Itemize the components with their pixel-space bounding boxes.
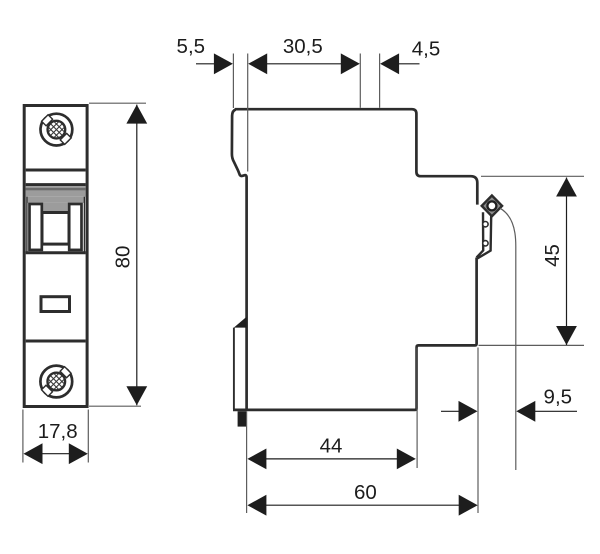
dim 60 line: [265, 504, 460, 506]
dim 30,5 right extension line: [359, 54, 361, 108]
toggle assembly bottom line: [26, 251, 86, 254]
toggle frame left line: [26, 197, 28, 254]
dim 80 top extension line: [89, 102, 146, 104]
gray band center step: [41, 203, 70, 212]
dim 60 right extension line: [477, 348, 479, 514]
DIN clip strip hole 1: [483, 222, 488, 227]
dim 17,8 line: [42, 453, 71, 455]
dim 17,8 left arrow: [24, 443, 43, 464]
screw terminal bottom: [40, 366, 72, 398]
dim 17,8 right arrow: [69, 443, 88, 464]
svg-text:45: 45: [541, 244, 564, 267]
DIN clip strip hole 2: [483, 241, 488, 246]
lower front tab wedge: [234, 317, 247, 328]
svg-text:5,5: 5,5: [177, 35, 206, 58]
front view outer body: [24, 106, 87, 407]
dim 30,5 right arrow: [341, 53, 360, 74]
dim 80 line: [136, 105, 138, 406]
toggle frame right line: [83, 197, 85, 254]
dim 5,5 tail line: [196, 63, 215, 65]
DIN clip strip left edge: [477, 212, 484, 257]
divider line below top screw section: [26, 169, 86, 172]
screw terminal top: [41, 114, 73, 146]
dim 9,5 right tail line: [534, 410, 577, 412]
dim front face extension line: [247, 54, 249, 172]
DIN clip strip right edge: [478, 216, 492, 259]
dim 5,5 extension line: [232, 54, 234, 109]
dim 60 right arrow: [459, 495, 478, 516]
divider line above gray band: [26, 183, 86, 186]
dark gray line on band: [26, 188, 86, 190]
gray band full width: [26, 186, 86, 197]
svg-text:80: 80: [112, 246, 135, 269]
lower front tab line: [233, 328, 235, 409]
dim 9,5 left arrow: [459, 401, 478, 422]
dim 44 right arrow: [397, 449, 416, 470]
right rail: [69, 204, 81, 250]
svg-text:44: 44: [320, 435, 343, 458]
divider line above bottom screw section: [26, 340, 86, 343]
dim 9,5 left tail line: [441, 410, 461, 412]
dim 30,5 left arrow: [248, 53, 267, 74]
bottom clip pin: [238, 411, 247, 426]
dim 17,8 right extension line: [87, 410, 89, 463]
dim 44 right extension line: [416, 348, 418, 469]
dim 80 top arrow: [126, 105, 147, 124]
dim 80 bottom arrow: [126, 386, 147, 405]
dim 30,5 line: [266, 63, 342, 65]
dim 44 line: [265, 458, 398, 460]
dim 45 top arrow: [556, 178, 577, 197]
dim 45 line: [566, 178, 568, 346]
label window: [41, 297, 70, 312]
dim 4,5 right extension line: [379, 54, 381, 108]
DIN clip screw circle: [487, 201, 496, 210]
dim 17,8 left extension line: [22, 410, 24, 463]
dim 45 bottom arrow: [556, 326, 577, 345]
dim 60 left arrow: [247, 495, 266, 516]
svg-text:30,5: 30,5: [283, 35, 323, 58]
dim 45 top extension line: [481, 175, 584, 177]
dim 44 left arrow: [247, 449, 266, 470]
dim 44 front extension line: [246, 412, 248, 514]
dim 45 bottom extension line: [479, 344, 585, 346]
dim 5,5 arrow: [214, 53, 233, 74]
side view top edge and right upper profile: [235, 109, 478, 204]
dim 4,5 arrow: [380, 53, 399, 74]
dim 80 bottom extension line: [89, 405, 141, 407]
dim 4,5 tail line: [398, 63, 420, 65]
DIN clip swing arc: [500, 208, 516, 470]
toggle handle: [42, 213, 69, 245]
svg-text:17,8: 17,8: [38, 420, 78, 443]
svg-text:9,5: 9,5: [544, 385, 573, 408]
gray band middle step: [27, 197, 85, 203]
side view top front tab and front face: [232, 110, 247, 410]
svg-text:60: 60: [354, 481, 377, 504]
dim 9,5 right arrow: [516, 401, 535, 422]
left rail: [30, 204, 42, 250]
side view bottom edge, rear step and lower rear face: [233, 258, 477, 410]
DIN clip screw diamond: [482, 196, 502, 217]
svg-text:4,5: 4,5: [412, 38, 441, 61]
